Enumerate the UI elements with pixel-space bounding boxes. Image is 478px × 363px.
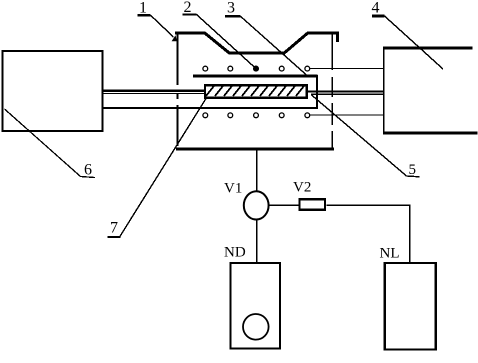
svg-text:NL: NL bbox=[380, 246, 400, 262]
sample bar 7 (hatched) bbox=[205, 85, 307, 97]
wire furnace bottom to valve V1 bbox=[256, 149, 258, 191]
leader line 1 with underline bbox=[138, 15, 178, 41]
furnace top cover with V notch (thick) bbox=[175, 33, 338, 53]
furnace bottom bbox=[176, 148, 334, 151]
svg-text:4: 4 bbox=[372, 0, 380, 17]
heater circles top row bbox=[203, 66, 310, 71]
svg-text:5: 5 bbox=[409, 162, 417, 178]
leader line 6 bbox=[5, 109, 96, 178]
svg-text:ND: ND bbox=[224, 245, 246, 261]
svg-text:7: 7 bbox=[110, 220, 118, 237]
inner tube top line bbox=[193, 75, 318, 78]
leader line 5 bbox=[311, 95, 420, 177]
rod right side thin bbox=[311, 93, 384, 95]
rod right side thick bbox=[308, 90, 384, 92]
svg-text:V2: V2 bbox=[293, 180, 311, 196]
box 4 (right apparatus) bbox=[383, 47, 478, 134]
leader line 4 with underline bbox=[372, 16, 443, 69]
heater circles bottom row bbox=[203, 113, 310, 118]
box NL bbox=[385, 263, 436, 350]
svg-text:1: 1 bbox=[139, 0, 147, 17]
valve V1 (circle) bbox=[244, 191, 269, 219]
wire top heater row to box 4 bbox=[310, 68, 384, 70]
pump ND rotor (circle) bbox=[243, 314, 269, 340]
wire bottom heater row to box 4 bbox=[309, 114, 384, 116]
tube bottom long line bbox=[103, 107, 318, 109]
box 6 (left apparatus) bbox=[3, 51, 103, 131]
pump ND (box) bbox=[231, 263, 281, 349]
svg-text:V1: V1 bbox=[224, 181, 242, 197]
svg-text:6: 6 bbox=[84, 162, 92, 179]
leader line 7 bbox=[108, 99, 207, 238]
wire V1 to V2 bbox=[269, 204, 299, 206]
wire V1 to ND bbox=[256, 220, 258, 263]
rod lower thin wall left bbox=[103, 93, 204, 95]
wire V2 to NL corner bbox=[327, 205, 410, 262]
furnace right wall (dashed) bbox=[331, 34, 333, 148]
restrictor V2 (rectangle) bbox=[300, 199, 326, 210]
svg-text:3: 3 bbox=[227, 0, 235, 17]
furnace left wall (dashed) bbox=[177, 33, 179, 148]
rod from box 6 to sample (thick upper wall) bbox=[103, 89, 204, 91]
leader line 2 with underline bbox=[183, 15, 257, 69]
inner tube right edge bbox=[316, 75, 318, 108]
leader line 3 with underline bbox=[225, 16, 307, 75]
